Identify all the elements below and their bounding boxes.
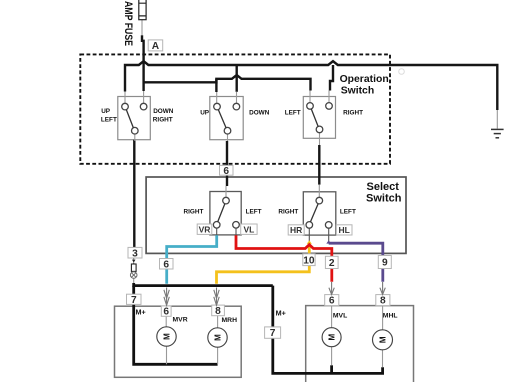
- svg-text:8: 8: [380, 296, 386, 307]
- svg-text:RIGHT: RIGHT: [278, 209, 298, 216]
- svg-text:MHL: MHL: [383, 313, 398, 320]
- svg-text:6: 6: [163, 259, 169, 270]
- svg-text:VL: VL: [243, 224, 254, 234]
- svg-text:DOWN: DOWN: [153, 108, 174, 115]
- svg-text:M: M: [163, 333, 172, 340]
- svg-text:LEFT: LEFT: [340, 209, 356, 216]
- svg-text:7: 7: [270, 328, 276, 339]
- svg-text:6: 6: [163, 307, 169, 318]
- svg-text:7: 7: [131, 295, 137, 306]
- svg-text:Switch: Switch: [366, 193, 402, 205]
- svg-text:M: M: [328, 334, 337, 341]
- svg-text:M: M: [379, 336, 388, 343]
- svg-text:HL: HL: [339, 225, 350, 235]
- svg-text:Operation: Operation: [340, 74, 389, 85]
- svg-text:M: M: [214, 334, 223, 341]
- svg-text:MVL: MVL: [333, 313, 347, 320]
- svg-text:A: A: [152, 41, 160, 52]
- svg-text:Switch: Switch: [341, 86, 375, 97]
- svg-text:LEFT: LEFT: [101, 117, 117, 124]
- svg-text:VR: VR: [199, 224, 211, 234]
- svg-text:M+: M+: [136, 308, 146, 317]
- svg-text:AMP FUSE: AMP FUSE: [122, 1, 134, 46]
- svg-text:MRH: MRH: [222, 317, 238, 324]
- svg-text:MVR: MVR: [173, 316, 188, 323]
- svg-text:LEFT: LEFT: [246, 209, 262, 216]
- svg-text:UP: UP: [200, 110, 210, 117]
- svg-text:9: 9: [382, 258, 388, 269]
- svg-text:DOWN: DOWN: [249, 110, 270, 117]
- svg-text:3: 3: [132, 248, 138, 259]
- svg-text:6: 6: [329, 296, 335, 307]
- svg-text:HR: HR: [290, 225, 302, 235]
- svg-text:LEFT: LEFT: [285, 110, 301, 117]
- svg-text:10: 10: [303, 255, 315, 266]
- svg-text:M+: M+: [276, 309, 286, 318]
- svg-text:Select: Select: [367, 181, 400, 193]
- svg-text:8: 8: [215, 306, 221, 317]
- svg-text:RIGHT: RIGHT: [153, 117, 173, 124]
- svg-text:RIGHT: RIGHT: [343, 110, 363, 117]
- svg-text:RIGHT: RIGHT: [184, 209, 204, 216]
- svg-text:6: 6: [223, 166, 229, 177]
- svg-text:UP: UP: [101, 108, 111, 115]
- svg-text:2: 2: [329, 258, 335, 269]
